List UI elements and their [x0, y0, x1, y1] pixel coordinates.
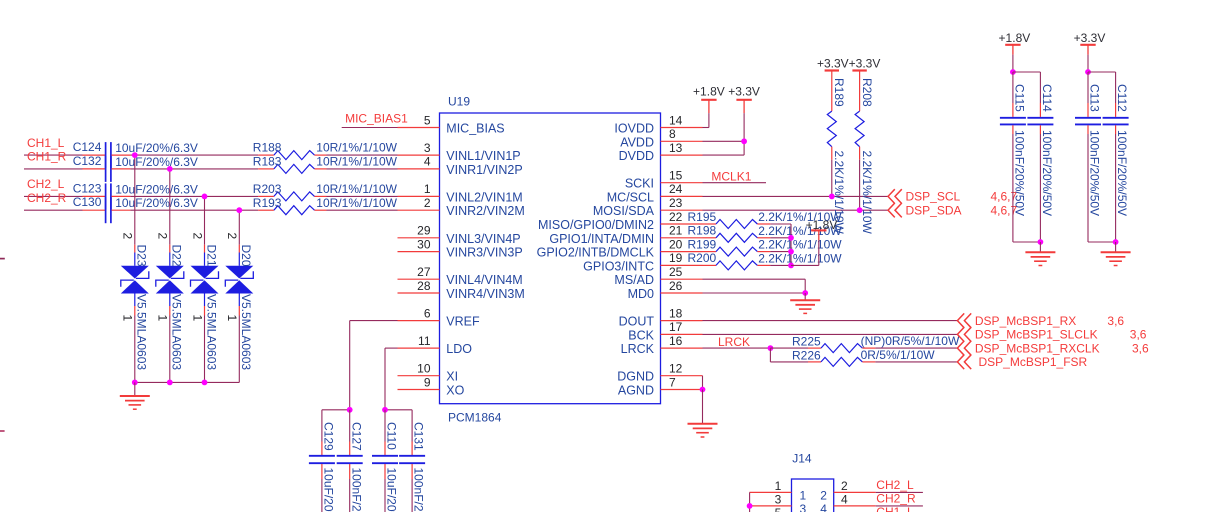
node junction D21	[202, 194, 208, 200]
U19 pin 18 DOUT	[619, 306, 703, 328]
svg-text:10uF/20%/6.3V: 10uF/20%/6.3V	[385, 468, 399, 512]
svg-text:C130: C130	[73, 195, 102, 209]
svg-text:VINR1/VIN2P: VINR1/VIN2P	[446, 163, 522, 177]
resistor R198 2.2K/1%/1/10W	[688, 224, 843, 243]
svg-text:0R/5%/1/10W: 0R/5%/1/10W	[861, 348, 936, 362]
ground MS/MD0	[790, 293, 820, 313]
node DSP_McBSP1_SLCLK off-page	[957, 327, 1146, 342]
svg-text:17: 17	[669, 320, 683, 334]
capacitor C123 10uF/20%/6.3V	[73, 181, 198, 209]
wire	[770, 237, 791, 239]
resistor R203 10R/1%/1/10W	[253, 182, 398, 201]
svg-text:3: 3	[424, 141, 431, 155]
J14 pin 4	[820, 493, 876, 512]
svg-text:AGND: AGND	[618, 384, 654, 398]
wire	[130, 168, 258, 170]
wire diode ground rail	[135, 381, 240, 383]
svg-text:CH1_L: CH1_L	[27, 136, 65, 150]
capacitor C114 100nF/20%/50V	[1027, 72, 1054, 242]
U19 pin 12 DGND	[617, 362, 702, 384]
svg-text:R226: R226	[792, 349, 821, 363]
node ground junction	[1113, 239, 1119, 245]
wire	[875, 361, 957, 363]
svg-text:100nF/20%/50V: 100nF/20%/50V	[1088, 130, 1102, 216]
capacitor C113 100nF/20%/50V	[1075, 72, 1102, 242]
U19 pin 27 VINL4/VIN4M	[398, 265, 523, 287]
svg-text:5: 5	[424, 113, 431, 127]
svg-text:DSP_McBSP1_RX: DSP_McBSP1_RX	[975, 314, 1076, 328]
wire LDO cap rail	[385, 409, 412, 411]
ground C114	[1025, 242, 1055, 266]
svg-text:10uF/20%/6.3V: 10uF/20%/6.3V	[115, 141, 198, 155]
wire pull-up bus vertical	[790, 224, 792, 265]
svg-text:2: 2	[121, 233, 135, 240]
wire	[130, 195, 258, 197]
svg-text:24: 24	[669, 182, 683, 196]
wire D21 tap	[204, 196, 206, 244]
U19 pin 29 VINL3/VIN4P	[398, 224, 521, 246]
svg-text:CH1_R: CH1_R	[27, 150, 67, 164]
svg-text:16: 16	[669, 334, 683, 348]
svg-text:VINR4/VIN3M: VINR4/VIN3M	[446, 287, 525, 301]
node strap junction	[747, 503, 753, 509]
svg-text:+3.3V: +3.3V	[817, 57, 849, 71]
resistor R200 2.2K/1%/1/10W	[688, 251, 843, 270]
resistor R225 (NP)0R/5%/1/10W	[792, 334, 960, 353]
wire	[327, 168, 398, 170]
svg-text:22: 22	[669, 210, 683, 224]
svg-text:C132: C132	[73, 154, 102, 168]
resistor R195 2.2K/1%/1/10W	[688, 210, 843, 229]
svg-text:MC/SCL: MC/SCL	[607, 190, 654, 204]
svg-text:3,6: 3,6	[1132, 341, 1149, 355]
svg-text:2: 2	[841, 479, 848, 493]
svg-text:2.2K/1%/1/10W: 2.2K/1%/1/10W	[758, 238, 842, 252]
svg-text:VINL1/VIN1P: VINL1/VIN1P	[446, 149, 520, 163]
svg-text:R203: R203	[253, 182, 282, 196]
node DSP_McBSP1_FSR off-page	[957, 355, 1087, 370]
svg-text:C110: C110	[385, 422, 399, 450]
U19 pin 15 SCKI	[625, 169, 703, 191]
node DSP_SCL off-page	[888, 189, 1018, 204]
node junctions pull-up bus	[788, 235, 794, 268]
wire	[770, 264, 791, 266]
transistor D23 V5.5MLA0603 TVS diode	[121, 233, 149, 371]
U19 pin 9 XO	[398, 375, 465, 397]
svg-text:R193: R193	[253, 196, 282, 210]
svg-text:2: 2	[156, 233, 170, 240]
capacitor C112 100nF/20%/50V	[1103, 72, 1130, 242]
U19 pin 20 GPIO2/INTB/DMCLK	[537, 237, 703, 259]
node MIC_BIAS1	[342, 111, 408, 127]
svg-text:3,6: 3,6	[1107, 314, 1124, 328]
ground DGND/AGND	[688, 390, 718, 438]
svg-text:13: 13	[669, 141, 683, 155]
svg-text:1: 1	[424, 182, 431, 196]
svg-text:6: 6	[424, 306, 431, 320]
ground diode rail	[120, 382, 150, 409]
svg-text:SCKI: SCKI	[625, 177, 654, 191]
svg-text:10R/1%/1/10W: 10R/1%/1/10W	[316, 182, 397, 196]
svg-text:100nF/20%/50V: 100nF/20%/50V	[349, 468, 363, 512]
wire D20 tap	[238, 210, 240, 245]
node DSP_McBSP1_RXCLK off-page	[957, 341, 1149, 356]
U19 pin 14 IOVDD	[614, 113, 702, 135]
wire	[770, 223, 791, 225]
node MCLK1 SCKI	[703, 170, 767, 184]
node junction D22	[167, 166, 173, 172]
wire cap top rail	[1013, 71, 1041, 73]
svg-text:10uF/20%/6.3V: 10uF/20%/6.3V	[115, 196, 198, 210]
J14 pin 3	[750, 493, 807, 512]
node AGND junction	[700, 387, 706, 393]
wire	[130, 154, 258, 156]
svg-text:DGND: DGND	[617, 370, 654, 384]
node CH2_R	[876, 492, 923, 506]
svg-text:10R/1%/1/10W: 10R/1%/1/10W	[316, 196, 397, 210]
svg-text:1: 1	[190, 315, 204, 322]
svg-text:100nF/20%/50V: 100nF/20%/50V	[412, 468, 426, 512]
svg-text:+1.8V: +1.8V	[999, 31, 1031, 45]
svg-text:10uF/20%/6.3V: 10uF/20%/6.3V	[322, 468, 336, 512]
svg-text:10R/1%/1/10W: 10R/1%/1/10W	[316, 141, 397, 155]
U19 pin 26 MD0	[628, 279, 703, 301]
svg-text:C112: C112	[1115, 84, 1129, 112]
svg-text:C114: C114	[1040, 84, 1054, 112]
svg-text:2: 2	[190, 233, 204, 240]
svg-text:(NP)0R/5%/1/10W: (NP)0R/5%/1/10W	[861, 334, 960, 348]
svg-text:LRCK: LRCK	[718, 335, 750, 349]
svg-text:VINL3/VIN4P: VINL3/VIN4P	[446, 232, 520, 246]
svg-text:+1.8V: +1.8V	[693, 85, 725, 99]
svg-text:11: 11	[418, 334, 431, 348]
power +3.3V AVDD DVDD	[703, 85, 760, 156]
U19 pin 24 MC/SCL	[607, 182, 703, 204]
svg-text:100nF/20%/50V: 100nF/20%/50V	[1040, 130, 1054, 216]
op-amp U19 PCM1864 IC body	[440, 95, 661, 425]
node CH1_L	[24, 136, 83, 155]
svg-text:D20: D20	[239, 245, 253, 267]
svg-text:12: 12	[669, 362, 683, 376]
svg-text:C129: C129	[322, 422, 336, 451]
resistor R189 2.2K pull-up	[817, 57, 849, 235]
svg-text:R188: R188	[253, 141, 282, 155]
capacitor C115 100nF/20%/50V	[1000, 72, 1027, 242]
svg-text:DSP_McBSP1_SLCLK: DSP_McBSP1_SLCLK	[975, 328, 1098, 342]
svg-text:CH2_R: CH2_R	[876, 492, 916, 506]
svg-text:4: 4	[820, 502, 827, 512]
wire VREF cap rail	[322, 409, 350, 411]
svg-text:1: 1	[156, 315, 170, 322]
svg-text:27: 27	[417, 265, 431, 279]
node supply junction	[1085, 69, 1091, 75]
U19 pin 23 MOSI/SDA	[593, 196, 703, 218]
svg-text:AVDD: AVDD	[620, 135, 654, 149]
capacitor C130 10uF/20%/6.3V	[73, 195, 198, 223]
node LRCK net label	[703, 335, 771, 349]
U19 pin 22 MISO/GPIO0/DMIN2	[538, 210, 703, 232]
resistor R183 10R/1%/1/10W	[253, 155, 398, 174]
svg-text:19: 19	[669, 251, 683, 265]
wire LRCK branch	[770, 348, 808, 362]
svg-text:2.2K/1%/1/10W: 2.2K/1%/1/10W	[758, 251, 842, 265]
svg-text:CH2_L: CH2_L	[876, 478, 914, 492]
capacitor C129 10uF/20%/6.3V	[309, 410, 336, 512]
capacitor C110 10uF/20%/6.3V	[372, 410, 399, 512]
transistor D20 V5.5MLA0603 TVS diode	[225, 233, 253, 371]
svg-text:C113: C113	[1088, 84, 1102, 112]
node junction D23	[132, 152, 138, 158]
U19 pin 4 VINR1/VIN2P	[398, 155, 523, 177]
svg-text:R183: R183	[253, 155, 282, 169]
svg-text:DSP_SCL: DSP_SCL	[906, 190, 961, 204]
svg-text:J14: J14	[792, 451, 812, 465]
transistor D22 V5.5MLA0603 TVS diode	[156, 233, 184, 371]
wire D22 tap	[169, 169, 171, 245]
svg-text:V5.5MLA0603: V5.5MLA0603	[239, 294, 253, 370]
svg-text:10uF/20%/6.3V: 10uF/20%/6.3V	[115, 182, 198, 196]
svg-text:CH2_L: CH2_L	[27, 177, 65, 191]
power +3.3V decoupling	[1074, 31, 1106, 72]
svg-text:GPIO3/INTC: GPIO3/INTC	[583, 259, 654, 273]
svg-text:23: 23	[669, 196, 683, 210]
node CH2_R	[24, 191, 83, 210]
resistor R193 10R/1%/1/10W	[253, 196, 398, 215]
wire	[238, 316, 240, 383]
wire VREF net	[350, 321, 398, 410]
svg-text:MS/AD: MS/AD	[614, 273, 654, 287]
svg-text:R199: R199	[688, 237, 717, 251]
svg-text:D21: D21	[204, 245, 218, 267]
svg-text:MOSI/SDA: MOSI/SDA	[593, 204, 655, 218]
svg-text:25: 25	[669, 265, 683, 279]
node AVDD junction	[741, 138, 747, 144]
svg-text:10R/1%/1/10W: 10R/1%/1/10W	[316, 155, 397, 169]
wire	[204, 316, 206, 383]
svg-text:+3.3V: +3.3V	[1074, 31, 1106, 45]
svg-text:VREF: VREF	[446, 315, 480, 329]
svg-text:2: 2	[225, 233, 239, 240]
wire BCK net	[703, 333, 958, 335]
svg-text:VINR3/VIN3P: VINR3/VIN3P	[446, 246, 522, 260]
transistor D21 V5.5MLA0603 TVS diode	[190, 233, 218, 371]
capacitor C127 100nF/20%/50V	[337, 410, 364, 512]
wire	[169, 316, 171, 383]
svg-text:1: 1	[800, 488, 807, 502]
node ground junction	[1038, 239, 1044, 245]
U19 pin 1 VINL2/VIN1M	[398, 182, 523, 204]
svg-text:15: 15	[669, 169, 683, 183]
svg-text:30: 30	[417, 237, 431, 251]
svg-text:1: 1	[775, 479, 782, 493]
svg-text:+3.3V: +3.3V	[849, 57, 881, 71]
U19 pin 25 MS/AD	[614, 265, 702, 287]
svg-text:18: 18	[669, 306, 683, 320]
svg-text:10uF/20%/6.3V: 10uF/20%/6.3V	[115, 155, 198, 169]
connector J14	[792, 451, 834, 512]
node DSP_SDA off-page	[888, 203, 1018, 218]
wire MS/AD	[703, 279, 806, 293]
svg-text:CH2_R: CH2_R	[27, 191, 67, 205]
svg-text:2: 2	[820, 488, 827, 502]
svg-text:MIC_BIAS1: MIC_BIAS1	[345, 111, 408, 125]
svg-text:5: 5	[775, 506, 782, 512]
node CH1_R	[24, 150, 83, 169]
wire MC/SCL net	[703, 195, 889, 197]
U19 pin 7 AGND	[618, 375, 703, 397]
wire	[134, 316, 136, 383]
node junction D20	[236, 207, 242, 213]
wire	[859, 160, 861, 211]
node LRCK junction	[768, 345, 774, 351]
svg-text:DOUT: DOUT	[619, 315, 655, 329]
svg-text:PCM1864: PCM1864	[448, 410, 502, 424]
U19 pin 3 VINL1/VIN1P	[398, 141, 521, 163]
wire D23 tap	[134, 155, 136, 245]
svg-text:V5.5MLA0603: V5.5MLA0603	[170, 294, 184, 370]
wire cap bottom rail	[1013, 241, 1041, 243]
svg-text:GPIO2/INTB/DMCLK: GPIO2/INTB/DMCLK	[537, 246, 655, 260]
node supply junction	[1010, 69, 1016, 75]
svg-text:R195: R195	[688, 210, 717, 224]
svg-text:V5.5MLA0603: V5.5MLA0603	[204, 294, 218, 370]
svg-text:XI: XI	[446, 370, 458, 384]
svg-text:14: 14	[669, 113, 683, 127]
wire	[831, 160, 833, 197]
U19 pin 28 VINR4/VIN3M	[398, 279, 525, 301]
svg-text:3,6: 3,6	[1130, 328, 1147, 342]
svg-text:D23: D23	[135, 245, 149, 267]
svg-text:+3.3V: +3.3V	[728, 85, 760, 99]
svg-text:2.2K/1%/1/10W: 2.2K/1%/1/10W	[860, 151, 874, 235]
svg-text:CH1_L: CH1_L	[876, 505, 914, 512]
node MD0 junction	[802, 290, 808, 296]
node R189/SCL junction	[829, 194, 835, 200]
svg-text:R189: R189	[832, 78, 846, 107]
svg-text:20: 20	[669, 237, 683, 251]
svg-text:MIC_BIAS: MIC_BIAS	[446, 122, 504, 136]
svg-text:BCK: BCK	[628, 328, 654, 342]
wire	[875, 347, 957, 349]
svg-text:R198: R198	[688, 224, 717, 238]
svg-text:DVDD: DVDD	[619, 149, 654, 163]
wire DGND/AGND	[702, 376, 704, 390]
wire	[770, 251, 791, 253]
svg-text:IOVDD: IOVDD	[614, 122, 654, 136]
U19 pin 6 VREF	[398, 306, 481, 328]
svg-text:VINR2/VIN2M: VINR2/VIN2M	[446, 204, 525, 218]
svg-text:26: 26	[669, 279, 683, 293]
svg-text:C127: C127	[349, 422, 363, 451]
svg-text:10: 10	[417, 362, 431, 376]
wire DOUT net	[703, 320, 958, 322]
wire MOSI/SDA net	[703, 209, 889, 211]
resistor R188 10R/1%/1/10W	[253, 141, 398, 160]
capacitor C124 10uF/20%/6.3V	[73, 140, 198, 168]
svg-text:R208: R208	[860, 78, 874, 107]
svg-text:MCLK1: MCLK1	[711, 170, 751, 184]
svg-text:7: 7	[669, 375, 676, 389]
U19 pin 19 GPIO3/INTC	[583, 251, 702, 273]
U19 pin 13 DVDD	[619, 141, 703, 163]
U19 pin 30 VINR3/VIN3P	[398, 237, 523, 259]
svg-text:U19: U19	[448, 95, 470, 109]
svg-text:V5.5MLA0603: V5.5MLA0603	[135, 294, 149, 370]
ground C112	[1101, 242, 1131, 266]
svg-text:1: 1	[121, 315, 135, 322]
J14 pin 2	[820, 479, 876, 502]
svg-text:MISO/GPIO0/DMIN2: MISO/GPIO0/DMIN2	[538, 218, 654, 232]
resistor R199 2.2K/1%/1/10W	[688, 237, 843, 256]
svg-text:DSP_SDA: DSP_SDA	[906, 204, 962, 218]
svg-text:DSP_McBSP1_FSR: DSP_McBSP1_FSR	[979, 355, 1088, 369]
svg-text:LDO: LDO	[446, 342, 472, 356]
resistor R226 0R/5%/1/10W	[792, 348, 935, 367]
svg-text:LRCK: LRCK	[621, 342, 655, 356]
svg-text:C123: C123	[73, 181, 102, 195]
svg-text:MD0: MD0	[628, 287, 654, 301]
svg-text:D22: D22	[170, 245, 184, 267]
svg-text:1: 1	[225, 315, 239, 322]
svg-text:GPIO1/INTA/DMIN: GPIO1/INTA/DMIN	[549, 232, 654, 246]
U19 pin 5 MIC_BIAS	[398, 113, 505, 135]
wire cap top rail	[1088, 71, 1116, 73]
wire cut stub left edge lower	[0, 430, 5, 432]
node DSP_McBSP1_RX off-page	[957, 313, 1124, 328]
svg-text:2: 2	[424, 196, 431, 210]
node CH2_L	[876, 478, 923, 492]
wire LDO net	[385, 348, 398, 410]
capacitor C131 100nF/20%/50V	[399, 410, 426, 512]
wire	[327, 195, 398, 197]
svg-text:8: 8	[669, 127, 676, 141]
svg-text:C124: C124	[73, 140, 102, 154]
wire cap bottom rail	[1088, 241, 1116, 243]
svg-text:3: 3	[775, 493, 782, 507]
svg-text:28: 28	[417, 279, 431, 293]
svg-text:C131: C131	[412, 422, 426, 451]
capacitor C132 10uF/20%/6.3V	[73, 154, 198, 182]
U19 pin 16 LRCK	[621, 334, 703, 356]
node CH2_L	[24, 177, 83, 196]
svg-text:C115: C115	[1013, 84, 1027, 112]
svg-text:4: 4	[841, 493, 848, 507]
svg-text:VINL2/VIN1M: VINL2/VIN1M	[446, 190, 522, 204]
wire	[130, 209, 258, 211]
svg-text:XO: XO	[446, 384, 464, 398]
power +1.8V decoupling	[999, 31, 1031, 72]
svg-text:DSP_McBSP1_RXCLK: DSP_McBSP1_RXCLK	[975, 341, 1100, 355]
node LDO rail junction	[382, 407, 388, 413]
wire J14 pin1-pin3 strap	[749, 492, 751, 512]
U19 pin 11 LDO	[398, 334, 473, 356]
svg-text:21: 21	[669, 224, 683, 238]
U19 pin 8 AVDD	[620, 127, 702, 149]
svg-text:100nF/20%/50V: 100nF/20%/50V	[1013, 130, 1027, 216]
power +1.8V IOVDD	[693, 85, 725, 128]
U19 pin 17 BCK	[628, 320, 702, 342]
svg-text:4: 4	[424, 155, 431, 169]
wire cut stub left edge upper	[0, 258, 5, 260]
U19 pin 2 VINR2/VIN2M	[398, 196, 525, 218]
svg-text:R200: R200	[688, 251, 717, 265]
node rail junctions	[132, 380, 208, 386]
U19 pin 10 XI	[398, 362, 459, 384]
J14 pin 1	[750, 479, 807, 502]
svg-text:9: 9	[424, 375, 431, 389]
svg-text:3: 3	[800, 502, 807, 512]
U19 pin 21 GPIO1/INTA/DMIN	[549, 224, 702, 246]
